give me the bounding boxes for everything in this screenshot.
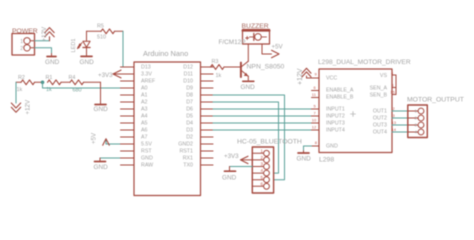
wire OUT2 to motor connector: [392, 117, 408, 119]
right labels: [370, 73, 388, 136]
svg-text:NPN_S8050: NPN_S8050: [247, 64, 285, 71]
svg-text:3.3V: 3.3V: [141, 72, 152, 78]
right pin labels: [178, 65, 193, 169]
supply +3V3 (HC-05 pin2): [224, 153, 252, 164]
svg-text:2: 2: [20, 46, 23, 52]
ground GND (LED1): [80, 48, 95, 67]
supply +12V (L298 VCC): [297, 68, 311, 85]
svg-text:D7: D7: [186, 100, 193, 106]
left pin labels: [141, 65, 156, 169]
svg-text:A4: A4: [141, 114, 148, 120]
ground GND (R4): [94, 82, 109, 113]
supply +12V (at POWER): [45, 28, 54, 41]
left labels: [326, 76, 354, 150]
svg-text:D4: D4: [186, 121, 193, 127]
svg-text:D3: D3: [186, 128, 193, 134]
wire POWER pin1 to +12V: [35, 40, 50, 42]
svg-text:+5V: +5V: [91, 132, 98, 144]
svg-text:+3V3: +3V3: [224, 153, 239, 160]
svg-text:GND2: GND2: [178, 142, 193, 148]
left pin stubs: [307, 78, 320, 130]
svg-text:15: 15: [390, 90, 395, 95]
wire OUT3 to motor connector: [392, 124, 408, 126]
ground GND (L298 pin8): [297, 146, 320, 163]
svg-text:OUT2: OUT2: [373, 116, 387, 122]
IC U2 L298 dual motor driver: [307, 59, 411, 163]
svg-text:D8: D8: [186, 93, 193, 99]
svg-text:INPUT2: INPUT2: [326, 114, 345, 120]
resistor R5: [87, 24, 124, 41]
svg-text:F/CM12P: F/CM12P: [219, 39, 246, 46]
svg-text:GND: GND: [94, 164, 109, 171]
ground GND (HC-05 pin3): [222, 167, 252, 182]
svg-text:INPUT1: INPUT1: [326, 107, 345, 113]
svg-text:GND: GND: [222, 175, 237, 182]
resistor R4: [69, 75, 101, 94]
svg-text:A7: A7: [141, 135, 148, 141]
svg-text:AREF: AREF: [141, 79, 156, 85]
svg-text:D12: D12: [183, 65, 193, 71]
IC U1 Arduino Nano: [121, 49, 214, 196]
connector JP2 HC-05 BLUETOOTH: [237, 139, 302, 194]
svg-text:LED1: LED1: [71, 39, 77, 53]
L298 right pins VS/SEN_A/SEN_B tied: [392, 75, 396, 95]
svg-text:RST: RST: [141, 149, 152, 155]
svg-text:L298: L298: [319, 156, 334, 163]
svg-text:RAW: RAW: [141, 163, 153, 169]
svg-text:L298_DUAL_MOTOR_DRIVER: L298_DUAL_MOTOR_DRIVER: [318, 59, 411, 66]
svg-text:A0: A0: [141, 86, 148, 92]
left pin stubs: [121, 67, 135, 165]
svg-text:VCC: VCC: [326, 76, 337, 82]
svg-text:A5: A5: [141, 121, 148, 127]
svg-text:+5V: +5V: [272, 44, 284, 51]
svg-text:A1: A1: [141, 93, 148, 99]
svg-text:10: 10: [312, 118, 317, 123]
svg-text:+12V: +12V: [41, 26, 48, 41]
svg-text:SEN_A: SEN_A: [370, 85, 388, 91]
ground GND (POWER): [47, 54, 56, 57]
svg-text:HC-05_BLUETOOTH: HC-05_BLUETOOTH: [237, 139, 302, 146]
supply +5V (buzzer): [272, 44, 284, 58]
svg-text:OUT4: OUT4: [373, 130, 387, 136]
svg-text:510: 510: [97, 35, 106, 41]
svg-text:OUT3: OUT3: [373, 123, 387, 129]
supply +3V3 (Arduino 3.3V pin): [98, 70, 121, 79]
svg-text:A6: A6: [141, 128, 148, 134]
connector POWER: [12, 28, 38, 55]
node junction R2/R1: [41, 81, 45, 85]
svg-text:GND: GND: [94, 106, 109, 113]
svg-text:1k: 1k: [17, 87, 23, 93]
svg-text:+12V: +12V: [297, 68, 304, 85]
svg-text:RST1: RST1: [179, 149, 193, 155]
svg-text:Arduino Nano: Arduino Nano: [143, 49, 188, 58]
wire D3 to L298 INPUT4: [213, 129, 312, 131]
wire D6 to L298 INPUT1: [213, 108, 312, 110]
svg-text:VS: VS: [380, 73, 388, 79]
transistor Q1 NPN_S8050: [241, 61, 285, 77]
svg-text:14: 14: [392, 127, 397, 132]
svg-text:D13: D13: [141, 65, 151, 71]
svg-text:+3V3: +3V3: [98, 72, 113, 79]
svg-text:SEN_B: SEN_B: [370, 92, 388, 98]
svg-text:D6: D6: [186, 107, 193, 113]
svg-text:A3: A3: [141, 107, 148, 113]
svg-text:GND: GND: [141, 156, 153, 162]
svg-text:MOTOR_OUTPUT: MOTOR_OUTPUT: [407, 97, 464, 104]
pin numbers left: [312, 72, 318, 146]
svg-text:1: 1: [20, 39, 23, 45]
origin cross: [351, 112, 356, 117]
svg-text:ENABLE_B: ENABLE_B: [326, 95, 354, 101]
LED LED1: [71, 31, 90, 52]
svg-text:D5: D5: [186, 114, 193, 120]
svg-text:RX1: RX1: [183, 156, 193, 162]
wire OUT4 to motor connector: [392, 131, 408, 133]
svg-text:13: 13: [392, 120, 397, 125]
svg-text:GND: GND: [80, 59, 95, 66]
wire buzzer left pin to Q1 collector: [247, 44, 249, 61]
svg-text:+12V: +12V: [25, 99, 32, 114]
svg-text:GND: GND: [326, 144, 338, 150]
svg-text:TX0: TX0: [183, 163, 193, 169]
wire R2 to +12V: [15, 82, 17, 103]
resistor R1: [46, 75, 71, 93]
svg-text:D2: D2: [186, 135, 193, 141]
svg-text:D10: D10: [183, 79, 193, 85]
connector MOTOR_OUTPUT: [407, 97, 464, 138]
svg-text:D11: D11: [184, 72, 193, 78]
svg-text:D9: D9: [186, 86, 193, 92]
wire buzzer right pin to +5V: [262, 44, 272, 54]
svg-text:5.5V: 5.5V: [141, 142, 152, 148]
wire node to Arduino A0: [43, 82, 121, 88]
ground GND (Q1 emitter): [241, 76, 256, 91]
supply +5V (Arduino 5V pin): [91, 132, 121, 145]
wire D8 to HC-05 pin5: [213, 95, 285, 180]
resistor R3: [211, 59, 241, 79]
wire D7 to HC-05 pin4: [213, 102, 279, 173]
wire POWER pin2 to GND: [35, 48, 52, 54]
wire D4 to L298 INPUT3: [213, 122, 312, 124]
svg-text:A2: A2: [141, 100, 148, 106]
svg-text:INPUT4: INPUT4: [326, 128, 345, 134]
ground GND (Arduino GND pin): [94, 158, 121, 171]
svg-text:INPUT3: INPUT3: [326, 121, 345, 127]
svg-text:GND: GND: [297, 156, 312, 163]
svg-text:12: 12: [312, 125, 317, 130]
wire R5 to Arduino D13: [121, 31, 124, 67]
svg-text:R2: R2: [18, 75, 25, 81]
resistor R2: [16, 75, 43, 93]
svg-text:GND: GND: [241, 84, 256, 91]
svg-text:GND: GND: [45, 59, 60, 66]
right pin stubs: [201, 67, 214, 165]
wire OUT1 to motor connector: [392, 110, 408, 112]
supply +12V (down arrow): [11, 103, 20, 112]
buzzer BUZZER: [219, 23, 270, 46]
svg-text:ENABLE_A: ENABLE_A: [326, 88, 354, 94]
svg-text:1k: 1k: [216, 73, 222, 79]
svg-text:OUT1: OUT1: [373, 109, 387, 115]
wire D5 to L298 INPUT2: [213, 115, 312, 117]
